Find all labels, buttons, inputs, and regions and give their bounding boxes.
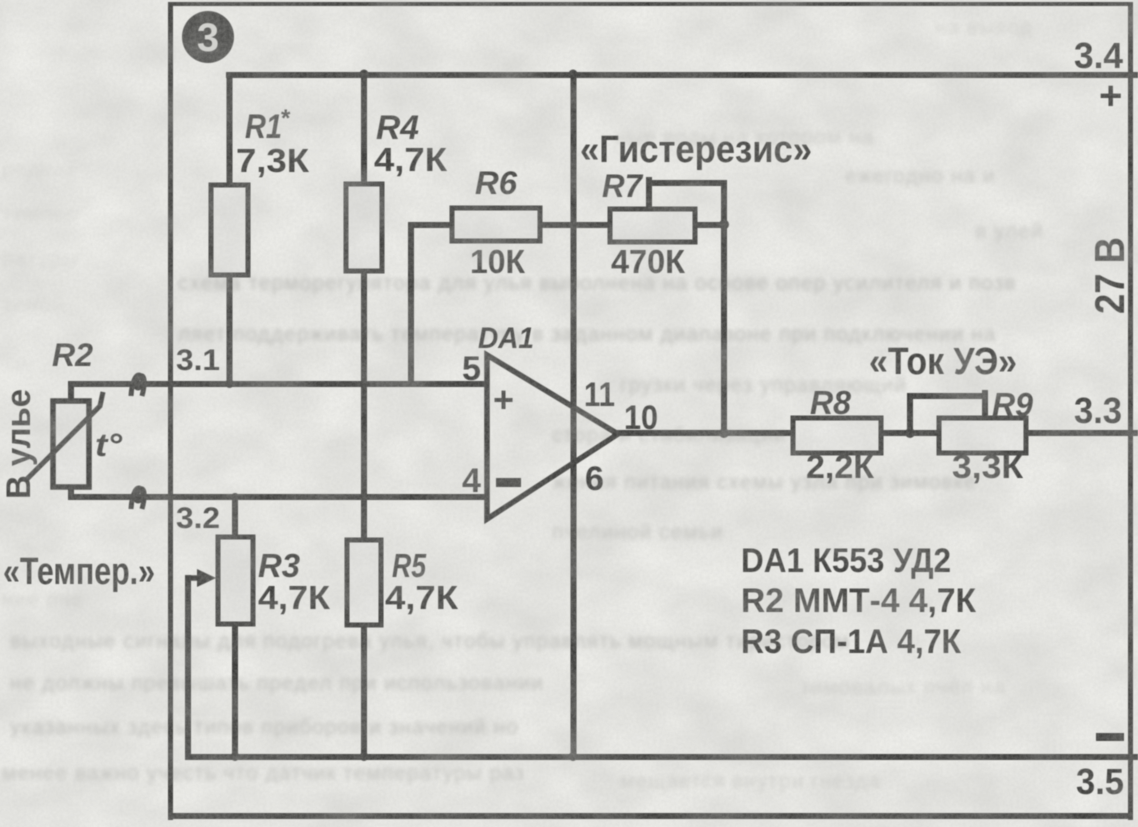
minus supply sign — [1096, 733, 1124, 741]
resistor R1 body — [211, 185, 248, 275]
wire: wiper vertical to bottom rail — [185, 575, 191, 757]
thermistor R2 body — [53, 401, 89, 487]
thermistor diagonal stroke — [27, 392, 103, 479]
wire: R1 top lead — [227, 72, 233, 186]
resistor R7 body — [610, 209, 695, 242]
wire: R6 left lead down to pin5 wire — [408, 222, 414, 383]
resistor R4 body — [346, 184, 382, 271]
wire: feedback vertical to output — [721, 180, 727, 435]
wire: R7 wiper bracket horizontal — [646, 180, 726, 186]
node: center vertical top junction — [569, 70, 578, 79]
node: R3 to pin4 wire — [231, 493, 239, 501]
wire: R3 top lead — [232, 496, 238, 538]
wire: R7 wiper stem — [646, 177, 652, 209]
node: R5 bottom junction — [360, 752, 369, 761]
op-amp DA1 triangle — [487, 355, 618, 519]
faint bleed-through text rows — [615, 126, 874, 150]
resistor R9 body — [939, 418, 1026, 453]
wire: R9 bracket horizontal — [907, 393, 988, 399]
frame border right — [1128, 2, 1133, 820]
node: R4/R5 midpoint to pin4 wire — [360, 493, 368, 501]
wire: R4/R5 vertical — [361, 72, 367, 758]
resistor R3 body — [218, 537, 253, 624]
wire: top supply rail 3.4 — [226, 72, 1138, 78]
wire: noninverting input 3.1 — [68, 381, 488, 387]
node: R1 to pin5 wire — [225, 379, 234, 388]
resistor R8 body — [793, 418, 881, 453]
frame border bottom — [168, 813, 1133, 819]
wire break squiggle top — [131, 375, 144, 396]
node: R7 junction — [719, 220, 729, 230]
wire: R1 bottom lead — [227, 275, 233, 385]
node: R9 bracket junction — [905, 428, 915, 438]
node: center vertical bottom junction — [569, 752, 578, 761]
wire: R9 bracket left vertical — [907, 394, 913, 433]
wire: R9 wiper stem — [982, 390, 988, 418]
wire: bottom rail 3.5 — [185, 754, 1138, 760]
wire: R6 right lead — [540, 222, 610, 228]
node: feedback to output wire — [719, 428, 729, 438]
wire: R3 bottom lead — [232, 624, 238, 757]
R3 wiper arrow — [187, 575, 203, 581]
wire: R7 right lead — [695, 222, 727, 228]
wire break squiggle bottom — [131, 488, 144, 509]
wire: R2 bottom lead — [68, 486, 74, 499]
minus sign inverting input — [496, 478, 521, 487]
frame border top — [168, 2, 1133, 6]
frame border left — [168, 2, 173, 820]
wire: center vertical power line — [571, 72, 577, 758]
resistor R6 body — [452, 208, 540, 241]
node: R3 bottom junction — [231, 752, 240, 761]
resistor R5 body — [347, 540, 381, 625]
wire: output from pin 10 — [612, 430, 1138, 436]
wire: inverting input 3.2 — [68, 494, 488, 500]
wire: R2 top lead — [68, 381, 74, 402]
node: R4 top junction — [360, 70, 369, 79]
figure number badge 3 — [182, 11, 234, 63]
wire: R6 left lead horizontal — [408, 222, 452, 228]
